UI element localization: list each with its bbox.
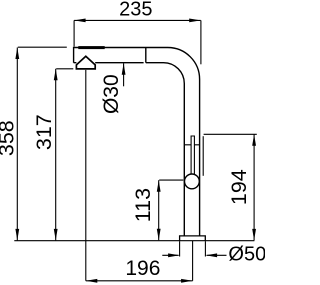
arrow 358 bottom xyxy=(15,229,19,241)
dim d50 ext left xyxy=(179,241,181,256)
dim 194 ext top xyxy=(204,133,257,135)
wire xyxy=(74,62,144,64)
arrow 196 right xyxy=(181,279,193,283)
arrow d30 up xyxy=(122,63,126,75)
arrow 194 top xyxy=(252,134,256,146)
arrow 235 right xyxy=(189,19,201,23)
base flange xyxy=(180,236,206,241)
svg-text:113: 113 xyxy=(131,188,155,222)
dim d50 ext right xyxy=(204,241,206,256)
dim 235 line xyxy=(74,19,201,21)
spray head joint xyxy=(145,48,147,63)
dim 194 line xyxy=(253,134,255,240)
nozzle xyxy=(76,56,95,69)
dim 196 line xyxy=(86,280,193,282)
grip bar xyxy=(78,46,104,49)
lever xyxy=(202,136,204,176)
dim 317 ext top xyxy=(56,68,73,70)
arrow 317 top xyxy=(54,69,58,81)
arrow 358 top xyxy=(15,48,19,60)
arrow 317 bottom xyxy=(54,229,58,241)
svg-text:317: 317 xyxy=(32,114,56,150)
dim 235 ext right xyxy=(200,20,202,64)
svg-text:194: 194 xyxy=(227,169,251,205)
svg-text:235: 235 xyxy=(119,0,152,21)
dim d30 leader xyxy=(123,63,125,86)
countertop xyxy=(14,240,254,242)
svg-text:Ø30: Ø30 xyxy=(100,74,123,114)
arrow d50 left-pointing xyxy=(206,253,218,257)
faucet spout outline xyxy=(74,48,200,236)
lever ball xyxy=(185,174,200,189)
arrow d50 right-pointing xyxy=(168,253,180,257)
arrow 113 bottom xyxy=(157,229,161,241)
svg-text:196: 196 xyxy=(125,257,160,280)
dim 113 ext top xyxy=(159,179,183,181)
arrow 196 left xyxy=(86,279,98,283)
dim 235 ext left xyxy=(73,20,75,46)
dim 196 ext right xyxy=(192,241,194,281)
dim d50 leader right xyxy=(207,254,227,256)
dim 113 line xyxy=(158,180,160,240)
hose rod xyxy=(191,136,194,174)
dim 317 line xyxy=(55,69,57,241)
dim 196 ext left xyxy=(85,70,87,281)
arrow 235 left xyxy=(74,19,86,23)
svg-text:358: 358 xyxy=(0,120,19,156)
wire xyxy=(146,63,185,236)
svg-text:Ø50: Ø50 xyxy=(228,243,265,265)
dim d50 leader left xyxy=(162,254,178,256)
arrow 113 top xyxy=(157,180,161,192)
dim 358 line xyxy=(16,48,18,241)
joint line xyxy=(184,144,199,146)
dim 358 ext top xyxy=(18,46,67,48)
arrow 194 bottom xyxy=(252,229,256,241)
